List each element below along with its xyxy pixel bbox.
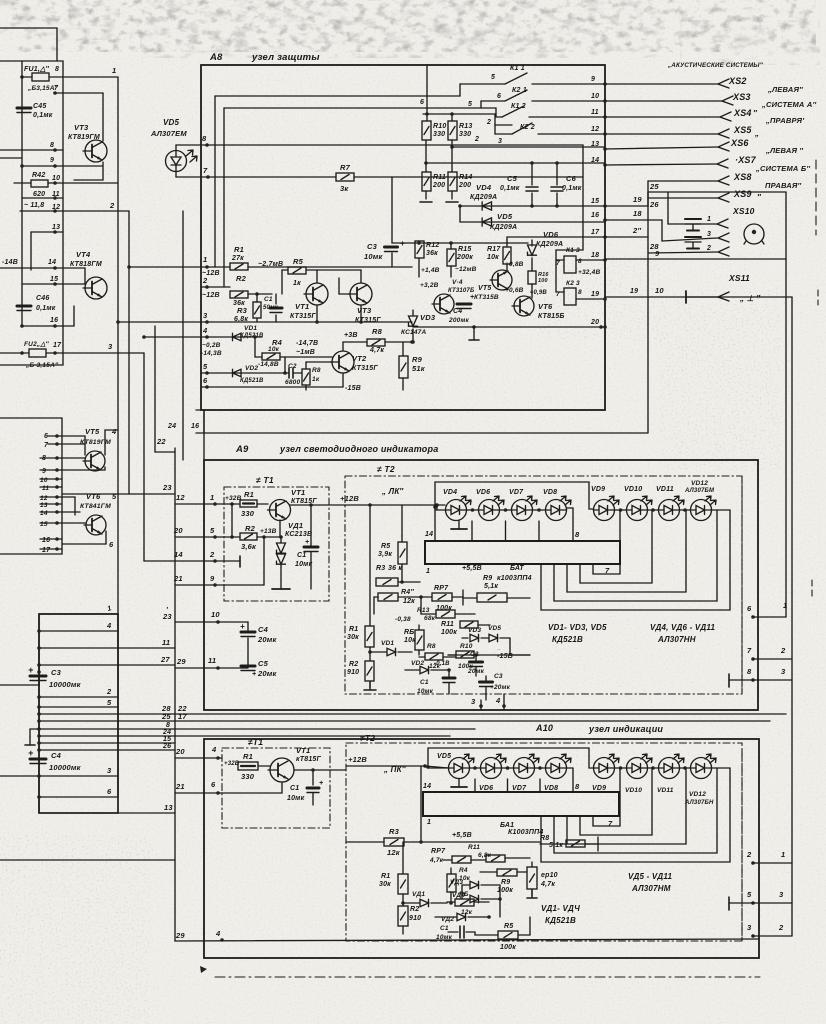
svg-text:VT1: VT1: [296, 746, 310, 755]
transistor VT6 KT818GM: [80, 492, 117, 535]
outer frame right dashes: [812, 160, 818, 600]
svg-text:R1: R1: [244, 490, 254, 499]
svg-text:20мк: 20мк: [257, 669, 277, 678]
wire 24: [37, 729, 450, 738]
wire VT2 base: [306, 361, 332, 363]
wire pin13b: [40, 502, 62, 509]
conn wire 11: [37, 638, 175, 650]
led VD12 A10: [684, 754, 716, 806]
svg-text:VД4: VД4: [452, 892, 465, 899]
wire pin15b: [40, 521, 85, 528]
svg-text:„ЛЕВАЯ″: „ЛЕВАЯ″: [767, 85, 803, 94]
svg-text:2: 2: [486, 119, 491, 126]
A9 pin9 wire: [173, 537, 264, 587]
capacitor C5A8 0.1mk: [500, 163, 538, 208]
svg-text:АЛ307БМ: АЛ307БМ: [684, 488, 715, 494]
wire 16 vertical: [155, 326, 175, 452]
connector XS9: [648, 189, 762, 202]
A9 DA1 top pins: [435, 510, 539, 541]
svg-text:24: 24: [167, 423, 176, 430]
svg-text:КТ315В: КТ315В: [474, 294, 499, 301]
svg-text:VD2: VD2: [411, 660, 424, 667]
svg-text:„ ЛК″: „ ЛК″: [381, 487, 404, 496]
svg-text:R5: R5: [381, 543, 390, 550]
svg-text:25: 25: [649, 182, 659, 191]
svg-text:С3: С3: [367, 242, 378, 251]
label sistema A: [761, 100, 816, 109]
svg-text:VД1- VДЧ: VД1- VДЧ: [541, 904, 580, 913]
svg-text:С4: С4: [51, 751, 62, 760]
svg-text:VD5: VD5: [488, 625, 501, 632]
svg-text:6: 6: [747, 604, 752, 613]
A10 C1b 10mk: [436, 925, 475, 941]
svg-text:VД1: VД1: [412, 891, 425, 898]
svg-text:330: 330: [241, 772, 255, 781]
A9 box outline: [204, 460, 758, 710]
capacitor C3 10000mk: [0, 665, 82, 689]
svg-text:5: 5: [203, 362, 208, 371]
conn bus: [38, 614, 40, 813]
A9 label +5.5V: [462, 565, 524, 572]
led VD11 A10: [657, 754, 684, 794]
A10 +12V label: [346, 755, 427, 768]
bottom left arrow mark: [200, 966, 207, 973]
svg-text:узел светодиодного индикатора: узел светодиодного индикатора: [279, 444, 438, 454]
svg-text:+: +: [240, 622, 245, 631]
wire pin13: [31, 224, 63, 270]
A10 R11 6.8k: [468, 844, 530, 862]
svg-text:узел защиты: узел защиты: [251, 52, 320, 63]
svg-text:200к: 200к: [456, 254, 473, 261]
svg-text:R13: R13: [417, 607, 430, 614]
svg-text:30к: 30к: [379, 881, 391, 888]
led VD7 A10: [512, 754, 539, 792]
A9 R2 3.6k: [232, 524, 283, 551]
wire 24-16 stubs: [167, 211, 204, 460]
A10 pin5 right: [729, 890, 792, 910]
A9 pin5 wire: [173, 526, 234, 539]
A9 VD1b diode: [368, 640, 412, 656]
svg-text:1: 1: [203, 255, 207, 264]
svg-text:+32В: +32В: [225, 495, 242, 502]
capacitor C2 6800: [283, 357, 302, 386]
svg-text:4,7к: 4,7к: [540, 881, 555, 888]
svg-text:19: 19: [630, 288, 638, 295]
A10 R8 5.1k: [540, 835, 598, 851]
svg-text:К1 1: К1 1: [510, 65, 525, 72]
svg-text:R10: R10: [460, 643, 473, 650]
svg-text:30к: 30к: [347, 634, 359, 641]
svg-text:23: 23: [162, 483, 172, 492]
svg-text:КТ819ГМ: КТ819ГМ: [68, 134, 100, 141]
svg-text:17: 17: [591, 229, 600, 236]
svg-text:VD11: VD11: [657, 787, 674, 794]
led VD5 A10: [437, 753, 474, 779]
A9 pins 3 4 bottom: [471, 694, 506, 710]
svg-text:15: 15: [591, 198, 599, 205]
svg-text:FU2„△″: FU2„△″: [24, 341, 50, 348]
svg-text:R3: R3: [237, 306, 248, 315]
svg-text:VD1: VD1: [244, 325, 257, 332]
svg-text:9: 9: [42, 468, 46, 475]
connector XS6: [605, 138, 749, 151]
led VD5 AL307EM: [150, 118, 197, 172]
svg-text:4: 4: [495, 696, 501, 705]
svg-text:15: 15: [40, 521, 48, 528]
A9 R4 12k: [374, 589, 432, 605]
svg-text:+3,2В: +3,2В: [420, 282, 439, 289]
svg-text:VД1: VД1: [288, 521, 303, 530]
A9 VD5 diode: [481, 625, 510, 655]
A10 R5 100k: [475, 917, 530, 951]
A9 pin2 wire: [174, 550, 240, 567]
capacitor xs filter 1: [685, 219, 701, 231]
transistor VT5A8 KT315V: [474, 261, 524, 301]
conn wire 4: [37, 621, 118, 633]
svg-text:620: 620: [33, 191, 45, 198]
connector XS3: [605, 92, 751, 105]
wire led8: [176, 134, 583, 150]
svg-text:2: 2: [746, 850, 752, 859]
svg-text:VД5 - VД11: VД5 - VД11: [628, 872, 672, 881]
svg-text:21: 21: [175, 782, 185, 791]
svg-text:10мк: 10мк: [295, 561, 313, 568]
svg-text:6,8к: 6,8к: [478, 852, 492, 859]
left box 2 outline: [0, 418, 62, 554]
wire 8 with ground: [25, 722, 475, 745]
svg-text:С4: С4: [258, 625, 269, 634]
svg-text:R8: R8: [312, 367, 321, 374]
wire pin14: [0, 259, 85, 270]
svg-text:-0,38: -0,38: [395, 616, 411, 623]
svg-text:16: 16: [591, 212, 599, 219]
transistor VT6A8 KT815B: [505, 287, 565, 320]
svg-text:С1: С1: [264, 296, 273, 303]
svg-text:~ 11,8: ~ 11,8: [24, 202, 44, 209]
svg-text:6800: 6800: [285, 379, 300, 386]
svg-text:R8: R8: [540, 835, 549, 842]
resistor R7 3k: [336, 163, 583, 243]
svg-text:VД4, VД6 - VД11: VД4, VД6 - VД11: [650, 623, 715, 632]
svg-text:9: 9: [655, 249, 660, 258]
svg-text:R9: R9: [501, 879, 510, 886]
svg-text:С4: С4: [453, 308, 462, 315]
A10 T2 label: [360, 733, 375, 743]
svg-text:А8: А8: [209, 52, 223, 63]
wire A9 led chain: [433, 482, 730, 541]
svg-text:VD5: VD5: [163, 118, 180, 127]
svg-text:100к: 100к: [500, 944, 516, 951]
wire bundle 175: [174, 448, 176, 941]
svg-text:': ': [166, 605, 168, 614]
wire pin13 row: [452, 146, 605, 148]
svg-text:3: 3: [498, 138, 502, 145]
svg-text:9: 9: [591, 76, 595, 83]
svg-text:VD9: VD9: [591, 486, 605, 493]
A10 DA1 top pins: [475, 779, 540, 792]
led VD6 A10: [479, 754, 506, 792]
A10 T1 label: [248, 737, 263, 747]
svg-text:17: 17: [178, 712, 187, 721]
A9 T2 label: [377, 464, 395, 474]
svg-text:3: 3: [781, 667, 786, 676]
wire pin17b: [40, 547, 62, 554]
transistor VT4A8 KT3107: [420, 282, 454, 314]
resistor R4 10k: [253, 335, 332, 360]
transistor VT3 KT819GM: [68, 123, 107, 162]
connector box outline: [39, 614, 118, 813]
wire A10 led chain: [426, 748, 730, 792]
svg-text:VD9: VD9: [592, 785, 606, 792]
wire right bus 1: [785, 192, 787, 617]
svg-text:14: 14: [423, 783, 431, 790]
wire vt5 pin7: [44, 436, 85, 455]
svg-text:„СИСТЕМА Б″: „СИСТЕМА Б″: [755, 164, 810, 173]
fuse FU2: [0, 341, 63, 369]
resistor R11 200: [420, 172, 446, 202]
svg-text:12: 12: [40, 495, 48, 502]
wire top-left corner entry: [0, 28, 57, 61]
svg-text:25: 25: [161, 712, 171, 721]
svg-text:КД209А: КД209А: [490, 224, 517, 231]
A9 LK label: [381, 487, 404, 496]
svg-text:5: 5: [107, 698, 112, 707]
svg-text:кТ815Г: кТ815Г: [296, 756, 322, 763]
A9 pin1 wire: [175, 493, 242, 537]
svg-text:29: 29: [175, 931, 185, 940]
svg-text:9: 9: [210, 574, 215, 583]
wire contact feed: [423, 65, 495, 125]
wire pin16b: [40, 537, 62, 544]
svg-text:С2: С2: [288, 363, 297, 370]
svg-text:V·4: V·4: [452, 279, 463, 286]
capacitor C5A9 20mk: [241, 638, 277, 678]
svg-text:0,1мк: 0,1мк: [36, 305, 56, 312]
label acoustic systems: [667, 62, 764, 69]
A10 staircase wires: [541, 768, 730, 862]
left box 1 outline: [0, 61, 63, 365]
svg-text:VT3: VT3: [357, 306, 372, 315]
relay contact K2.2: [474, 119, 605, 145]
svg-text:12к: 12к: [387, 848, 401, 857]
svg-text:+5,5В: +5,5В: [452, 832, 472, 839]
svg-text:6: 6: [497, 93, 501, 100]
A9 VD3 diode: [462, 627, 481, 642]
svg-text:7: 7: [747, 646, 752, 655]
diode VD5A8 KD209A: [460, 212, 605, 231]
svg-text:4: 4: [215, 929, 221, 938]
svg-text:С1: С1: [290, 785, 299, 792]
transistor VT5 KT819GM: [80, 427, 118, 471]
svg-text:24: 24: [162, 729, 171, 736]
svg-text:R8: R8: [427, 643, 436, 650]
svg-text:R2: R2: [245, 524, 256, 533]
A9 wire 15V: [448, 649, 530, 655]
label 2.7mV: [258, 261, 283, 268]
wire 22 horizontal: [156, 437, 166, 446]
svg-text:16: 16: [50, 317, 58, 324]
svg-text:+0,6В: +0,6В: [505, 287, 524, 294]
svg-text:+: +: [28, 665, 34, 675]
opto DA1 K1003PP4 A9: [425, 530, 620, 575]
svg-text:R7: R7: [340, 163, 351, 172]
A10 R6 12k: [447, 891, 489, 916]
svg-text:8: 8: [575, 530, 580, 539]
A9 title: [235, 444, 438, 455]
svg-text:330: 330: [433, 131, 445, 138]
svg-text:1к: 1к: [312, 376, 320, 383]
wire pin17 row: [507, 237, 605, 240]
svg-text:VD7: VD7: [512, 785, 527, 792]
svg-text:ХS3: ХS3: [732, 92, 751, 102]
capacitor C6A8 0.1mk: [530, 161, 582, 208]
svg-text:10: 10: [52, 175, 60, 182]
svg-text:3: 3: [108, 342, 113, 351]
led VD12 A9: [684, 480, 716, 521]
svg-text:VT5: VT5: [478, 285, 491, 292]
svg-text:„ ⊥ ″: „ ⊥ ″: [739, 294, 761, 303]
resistor R10 330: [422, 121, 446, 140]
A8 box title: [209, 52, 320, 63]
wire 9 relay: [605, 249, 786, 259]
A10 VD3 diode: [450, 879, 500, 917]
svg-text:„ПРАВРЯ′: „ПРАВРЯ′: [765, 116, 805, 125]
svg-text:2: 2: [706, 245, 711, 252]
svg-text:8: 8: [202, 134, 207, 143]
svg-text:-14,3В: -14,3В: [201, 350, 222, 357]
svg-text:VT1: VT1: [291, 488, 305, 497]
wire 2 vertical: [129, 211, 175, 494]
svg-text:+13В: +13В: [260, 528, 277, 535]
wire pin15: [22, 268, 85, 286]
wire pin16: [20, 162, 103, 328]
conn wire 27: [37, 655, 175, 667]
resistor R17 10k: [487, 240, 511, 270]
diode VD1 KD521V: [201, 325, 264, 357]
led VD6 A9: [476, 489, 504, 521]
A9 label R9 K1003: [483, 575, 532, 582]
A10 inner right dashdot: [741, 750, 743, 941]
svg-text:С46: С46: [36, 295, 49, 302]
svg-text:22: 22: [156, 437, 166, 446]
diode VD3 KS147A: [401, 310, 436, 344]
A10 T1 box: [222, 748, 330, 828]
svg-text:К2 2: К2 2: [520, 124, 535, 131]
wire right bus 3: [791, 297, 793, 936]
wire 29-11: [175, 656, 248, 670]
A9 VD1 KS213B: [272, 520, 312, 589]
svg-text:1: 1: [781, 850, 785, 859]
svg-text:R9: R9: [412, 355, 423, 364]
svg-text:14: 14: [48, 259, 56, 266]
wire 23-10: [162, 605, 248, 624]
A10 R1b 30k: [379, 842, 408, 906]
svg-text:4: 4: [111, 427, 117, 436]
svg-text:~2,7мВ: ~2,7мВ: [258, 261, 283, 268]
svg-text:КТ315Г: КТ315Г: [290, 313, 316, 320]
connector XS10: [706, 206, 755, 256]
wire 15: [37, 736, 175, 745]
svg-text:R9: R9: [483, 575, 492, 582]
A9 R9 5.1k: [463, 583, 530, 602]
capacitor xs filter 2: [685, 237, 701, 249]
svg-text:„Б-3,15А″: „Б-3,15А″: [25, 362, 59, 369]
resistor R14 200: [446, 172, 472, 202]
svg-text:VD12: VD12: [691, 480, 708, 487]
A10 box outline: [204, 739, 759, 958]
svg-text:2″: 2″: [632, 226, 641, 235]
relay K1.3: [556, 247, 605, 276]
svg-text:2: 2: [778, 923, 784, 932]
svg-text:4: 4: [211, 745, 217, 754]
svg-text:VD4: VD4: [476, 183, 492, 192]
svg-text:17: 17: [53, 342, 62, 349]
A9 +12V rail: [290, 494, 445, 510]
wire 26: [37, 743, 175, 752]
svg-text:VD11: VD11: [656, 486, 674, 493]
svg-text:КС213В: КС213В: [285, 531, 312, 538]
svg-text:10мк: 10мк: [287, 795, 305, 802]
svg-text:13: 13: [52, 224, 60, 231]
svg-text:21: 21: [173, 574, 183, 583]
A10 R3 12k: [346, 827, 540, 857]
wire 15-25 row: [605, 182, 786, 224]
svg-text:+: +: [470, 294, 474, 301]
svg-text:+: +: [252, 671, 256, 678]
svg-text:26: 26: [162, 743, 171, 750]
A9 T2 box: [345, 476, 742, 694]
svg-text:R15: R15: [458, 246, 471, 253]
wire 28: [648, 242, 717, 253]
svg-text:VD10: VD10: [624, 486, 642, 493]
svg-text:-15В: -15В: [497, 653, 513, 660]
svg-text:50мк: 50мк: [263, 305, 279, 311]
svg-text:2: 2: [106, 687, 112, 696]
led VD11 A9: [656, 486, 684, 521]
A9 label -0.38: [395, 616, 411, 623]
A10 RP7 4.7k: [429, 848, 486, 864]
svg-text:R2: R2: [236, 274, 247, 283]
wire 1 vertical: [117, 77, 119, 797]
svg-text:2: 2: [202, 276, 208, 285]
svg-text:БАТ: БАТ: [510, 565, 524, 572]
svg-text:3,6к: 3,6к: [241, 542, 257, 551]
wire pin11b: [40, 485, 62, 492]
svg-text:0,1мк: 0,1мк: [500, 185, 520, 192]
svg-text:20: 20: [590, 319, 599, 326]
svg-text:VT2: VT2: [352, 354, 367, 363]
resistor R13 330: [448, 121, 472, 172]
svg-text:6: 6: [44, 433, 48, 440]
A9 wire mid: [374, 597, 530, 655]
opto DA1 K1003PP4 A10: [423, 782, 619, 828]
svg-text:С5: С5: [258, 659, 269, 668]
svg-text:R14: R14: [459, 174, 472, 181]
A10 RP10 4.7k: [527, 862, 558, 898]
resistor R42 620: [14, 172, 118, 198]
A9 ground tick: [451, 521, 467, 529]
label pravaya A: [765, 116, 805, 125]
svg-text:+3В: +3В: [344, 332, 358, 339]
A10 label BA1: [500, 822, 543, 836]
svg-text:10: 10: [211, 610, 220, 619]
wire 29-4 bottom: [175, 929, 759, 942]
svg-text:„СИСТЕМА А″: „СИСТЕМА А″: [761, 100, 816, 109]
svg-text:6: 6: [203, 376, 208, 385]
A10 T2 box: [346, 743, 742, 941]
wire 16-26 row: [605, 200, 717, 241]
svg-text:6: 6: [420, 99, 424, 106]
